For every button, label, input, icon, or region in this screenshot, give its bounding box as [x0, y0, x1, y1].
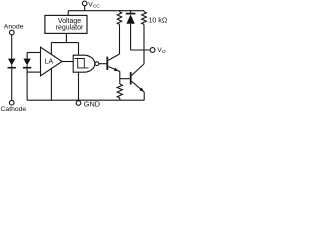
svg-text:Cathode: Cathode: [1, 106, 27, 113]
svg-text:VO: VO: [157, 47, 166, 55]
svg-text:GND: GND: [84, 99, 100, 108]
svg-text:regulator: regulator: [56, 24, 84, 31]
svg-text:Anode: Anode: [4, 23, 24, 30]
svg-text:VCC: VCC: [88, 2, 100, 10]
svg-text:10 kΩ: 10 kΩ: [148, 15, 168, 24]
svg-text:LA: LA: [45, 58, 54, 65]
